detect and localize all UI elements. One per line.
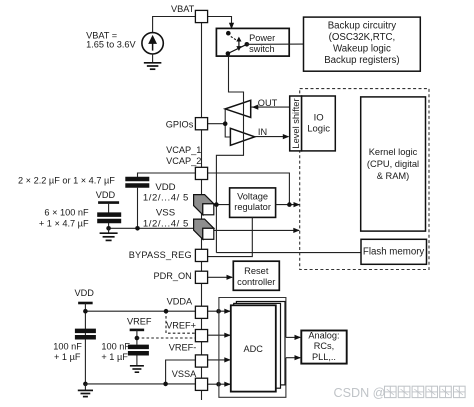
svg-text:1.65 to 3.6V: 1.65 to 3.6V	[86, 39, 136, 49]
wire power switch to VDD rail (down, jog over buffers, to flash tee)	[216, 56, 243, 253]
wire VDD pin to regulator	[214, 204, 230, 206]
svg-text:RCs,: RCs,	[314, 341, 334, 351]
label VDD 1/2/...4/5	[143, 182, 189, 204]
label VREF+	[166, 321, 196, 331]
node VDDA container junction	[216, 309, 221, 314]
pin VDD 1/2/...4/5 (3D)	[194, 195, 214, 215]
svg-text:100 nF: 100 nF	[101, 341, 130, 351]
arrow into reset controller	[227, 275, 234, 280]
svg-text:VBAT: VBAT	[171, 4, 195, 14]
label 100 nF (left)	[53, 341, 82, 351]
node VREF- ground junction	[163, 382, 168, 387]
svg-text:switch: switch	[249, 44, 275, 54]
label 100 nF (VREF)	[101, 341, 130, 351]
pin VBAT	[195, 10, 207, 22]
label OUT	[258, 98, 278, 108]
pin GPIOs	[195, 118, 207, 130]
label kernel logic	[367, 147, 419, 181]
svg-text:VDD: VDD	[74, 288, 94, 298]
wire VBAT pin to battery source	[153, 17, 196, 33]
watermark CSDN	[334, 386, 466, 400]
label VDD supply above 100nF caps	[96, 190, 116, 200]
arrow OUT into buffer	[252, 105, 258, 110]
label VDDA	[167, 297, 193, 307]
pin VCAP_2	[195, 167, 207, 179]
label Voltage regulator	[234, 192, 271, 212]
svg-text:Flash memory: Flash memory	[363, 247, 425, 258]
wire VDDA rail	[85, 310, 195, 312]
svg-text:VREF+: VREF+	[166, 321, 196, 331]
svg-text:Kernel logic: Kernel logic	[369, 147, 418, 157]
svg-text:Wakeup logic: Wakeup logic	[333, 43, 391, 54]
svg-text:PDR_ON: PDR_ON	[154, 271, 192, 281]
reset controller box	[233, 261, 279, 290]
svg-text:+ 1 µF: + 1 µF	[101, 352, 128, 362]
svg-text:PLL,..: PLL,..	[312, 352, 336, 362]
svg-text:controller: controller	[237, 277, 275, 287]
pin VSS 1/2/...4/5 (3D)	[194, 219, 214, 239]
level shifter box	[290, 96, 302, 151]
svg-text:6 × 100 nF: 6 × 100 nF	[44, 207, 89, 217]
buffer input (triangle right)	[230, 128, 254, 145]
label + 1 uF (VREF)	[101, 352, 128, 362]
arrow VSSA into ADC	[224, 382, 231, 387]
wire regulator output	[276, 204, 300, 206]
svg-text:GPIOs: GPIOs	[166, 119, 194, 129]
capacitor 100nF+1uF (VREF)	[128, 347, 149, 353]
svg-text:VSSA: VSSA	[172, 369, 197, 379]
svg-text:BYPASS_REG: BYPASS_REG	[129, 250, 192, 260]
svg-text:Analog:: Analog:	[308, 331, 339, 341]
label ADC	[243, 344, 263, 354]
pin PDR_ON	[195, 271, 207, 283]
wire VBAT pin to power switch	[208, 17, 232, 25]
label VREF	[127, 316, 152, 326]
label Power switch	[249, 33, 275, 54]
arrow into analog box bottom	[295, 355, 302, 360]
node VDDA dashed branch	[164, 309, 169, 314]
svg-text:VCAP_2: VCAP_2	[166, 156, 201, 166]
wire VREF bar to junction	[136, 330, 138, 345]
svg-text:Level shifter: Level shifter	[291, 98, 301, 148]
wire VDD bar down to ground	[84, 303, 86, 384]
wire VCAP cap to VSS rail	[137, 188, 139, 229]
svg-text:VDD: VDD	[96, 190, 116, 200]
label VSS 1/2/...4/5	[143, 207, 189, 229]
label Analog RCs PLL	[308, 331, 339, 363]
svg-text:ADC: ADC	[243, 344, 263, 354]
pin BYPASS_REG	[195, 249, 207, 261]
wire ground rail to VSSA	[85, 383, 195, 385]
wire VSSA to ADC	[208, 383, 230, 385]
label Level shifter	[291, 98, 301, 148]
power switch box	[216, 28, 289, 56]
node VSS rail junctions	[106, 226, 140, 231]
pin VREF+	[195, 330, 207, 342]
wire VSS pin to domain	[214, 229, 299, 231]
svg-text:Backup registers): Backup registers)	[324, 55, 399, 66]
label Reset controller	[237, 266, 275, 287]
svg-text:IO: IO	[314, 112, 324, 123]
arrow VSS into domain	[293, 228, 300, 233]
dashed VDD domain boundary	[300, 89, 429, 270]
label VREF-	[169, 342, 197, 352]
wire VDDA to ADC	[208, 310, 230, 312]
node GPIO junction	[223, 121, 228, 126]
wire BYPASS_REG to regulator	[208, 217, 253, 256]
label 6 x 100 nF	[44, 207, 89, 217]
backup circuitry box	[304, 17, 421, 71]
svg-text:Reset: Reset	[244, 266, 269, 276]
svg-text:(CPU, digital: (CPU, digital	[367, 159, 419, 169]
label PDR_ON	[154, 271, 192, 281]
label + 1 x 4.7 uF	[39, 219, 89, 229]
power switch contacts	[226, 31, 250, 56]
svg-text:Power: Power	[249, 33, 275, 43]
wire PDR_ON to reset controller	[208, 276, 232, 278]
IO logic box	[302, 96, 336, 151]
arrow VREF+ into ADC	[224, 333, 231, 338]
ADC stacked box back	[236, 302, 285, 385]
node regulator output junction	[287, 202, 292, 207]
svg-text:CSDN @: CSDN @	[334, 386, 386, 400]
svg-text:1/2/...4/ 5: 1/2/...4/ 5	[143, 192, 189, 203]
node VSSA container junction	[216, 382, 221, 387]
svg-text:(OSC32K,RTC,: (OSC32K,RTC,	[329, 32, 396, 43]
node ground rail junction	[83, 382, 88, 387]
dashed wire VDDA to VREF+	[166, 311, 195, 333]
svg-text:VSS: VSS	[156, 207, 175, 218]
ground below VBAT source	[144, 63, 162, 69]
svg-text:& RAM): & RAM)	[377, 171, 410, 181]
node VREF junction	[135, 336, 140, 341]
wire source to ground	[152, 54, 154, 62]
VDD bottom supply bar	[78, 302, 93, 305]
flash memory box	[361, 239, 427, 264]
capacitor VCAP 2x2.2uF	[125, 179, 149, 186]
wire VREF- to ADC	[208, 359, 230, 361]
label VDD bottom	[74, 288, 94, 298]
voltage regulator box	[230, 188, 276, 218]
svg-text:Logic: Logic	[307, 123, 330, 134]
ground below VREF cap	[130, 366, 144, 372]
svg-text:100 nF: 100 nF	[53, 341, 82, 351]
label IN	[258, 127, 267, 137]
label VBAT = 1.65 to 3.6V	[86, 30, 136, 49]
label backup circuitry	[324, 21, 399, 66]
svg-text:regulator: regulator	[234, 202, 271, 212]
arrow IN into level shifter	[283, 134, 290, 139]
pin VREF-	[195, 355, 207, 367]
wire VREF- to ground rail	[166, 360, 196, 384]
label Flash memory	[363, 247, 425, 258]
arrow into analog box top	[295, 335, 302, 340]
wire VBAT rail (main pin rail)	[201, 22, 203, 400]
ground below VSS rail	[100, 228, 118, 240]
wire VCAP to regulator output	[208, 173, 290, 205]
wire VREF cap to ground	[136, 356, 138, 366]
wire power switch output	[247, 43, 304, 45]
kernel logic box	[361, 97, 426, 231]
node VDD/VDDA junction	[83, 309, 88, 314]
wire VREF+ to ADC	[208, 334, 230, 336]
label 2 x 2.2 uF or 1 x 4.7 uF	[18, 176, 115, 186]
wire OUT	[252, 106, 290, 108]
capacitor 100nF+1uF (VDD)	[75, 331, 96, 337]
svg-text:+ 1 µF: + 1 µF	[54, 352, 81, 362]
wire container to analog box top	[286, 336, 300, 338]
arrow into power switch	[229, 23, 234, 30]
svg-text:VDD: VDD	[155, 182, 175, 193]
label VBAT	[171, 4, 195, 14]
wire VDD bar to cap	[108, 204, 110, 213]
wire VDD junction to flash memory	[216, 252, 361, 254]
label VSSA	[172, 369, 197, 379]
wire VSS rail	[109, 227, 195, 229]
label VCAP_1 VCAP_2	[166, 145, 201, 166]
svg-text:VCAP_1: VCAP_1	[166, 145, 201, 155]
ADC box front	[231, 305, 276, 391]
wire GPIOs to buffers	[208, 109, 231, 137]
label IO Logic	[307, 112, 330, 134]
battery/current source symbol	[142, 33, 163, 54]
analog RCs PLL box	[301, 331, 346, 364]
arrow VREF- into ADC	[224, 357, 231, 362]
analog supply container	[219, 298, 286, 398]
label BYPASS_REG	[129, 250, 192, 260]
svg-text:VREF-: VREF-	[169, 342, 197, 352]
svg-text:VDDA: VDDA	[167, 297, 193, 307]
node VDD junction	[214, 202, 219, 207]
VDD supply bar	[98, 201, 119, 204]
wire VCAP to cap	[138, 173, 196, 177]
pin VDDA	[195, 306, 207, 318]
label + 1 uF (left)	[54, 352, 81, 362]
svg-text:2 × 2.2 µF or 1 × 4.7 µF: 2 × 2.2 µF or 1 × 4.7 µF	[18, 176, 115, 186]
arrow VDDA into ADC	[224, 309, 231, 314]
VREF supply bar	[130, 329, 145, 332]
dashed wire VREF to VREF+	[137, 337, 196, 339]
svg-text:Backup circuitry: Backup circuitry	[328, 21, 397, 32]
arrow regulator output into domain	[294, 202, 301, 207]
ADC stacked box middle	[234, 303, 281, 388]
svg-text:VREF: VREF	[127, 316, 152, 326]
wire container to analog box bottom	[286, 357, 300, 359]
capacitor 6x100nF	[97, 215, 121, 221]
svg-text:Voltage: Voltage	[237, 192, 268, 202]
svg-text:OUT: OUT	[258, 98, 278, 108]
ground bottom left	[78, 384, 93, 397]
buffer output (triangle left)	[225, 100, 251, 117]
svg-text:+ 1 × 4.7 µF: + 1 × 4.7 µF	[39, 219, 89, 229]
wire cap to VSS rail	[108, 223, 110, 228]
label GPIOs	[166, 119, 194, 129]
wire IN	[255, 136, 289, 138]
svg-text:IN: IN	[258, 127, 267, 137]
pin VSSA	[195, 378, 207, 390]
